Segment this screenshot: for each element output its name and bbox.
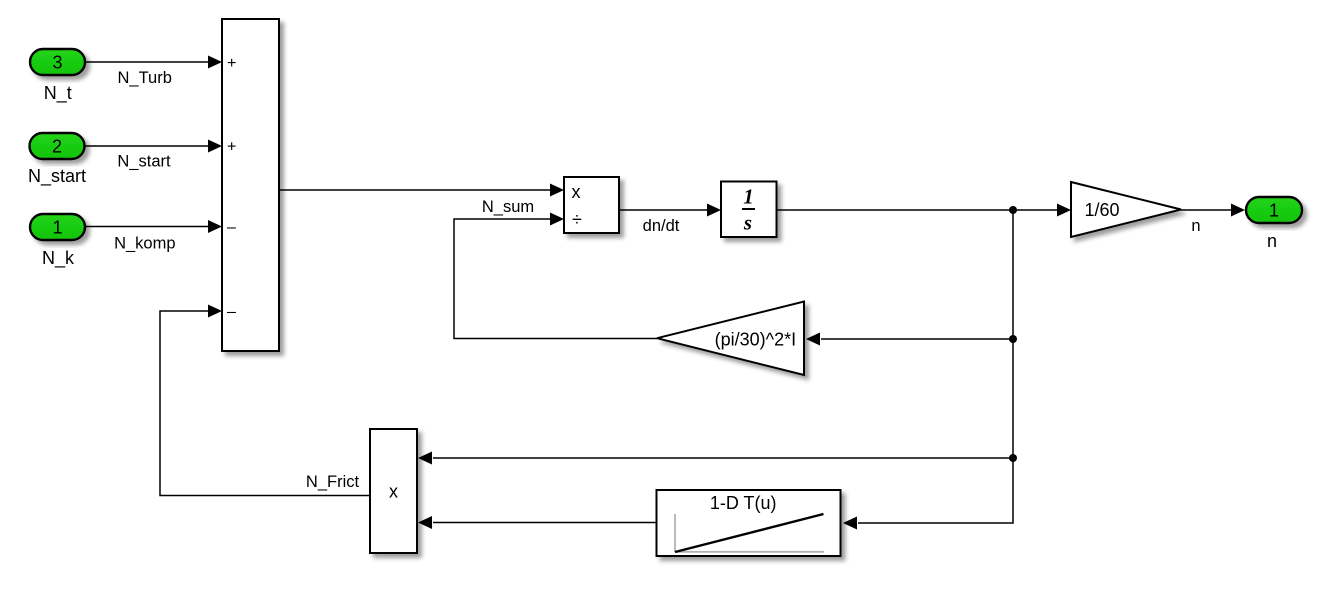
arrowhead into divide divisor input xyxy=(550,213,564,226)
svg-text:N_k: N_k xyxy=(42,248,75,269)
1-D lookup table block xyxy=(657,490,841,556)
svg-text:dn/dt: dn/dt xyxy=(643,217,680,235)
arrowhead into sum input 1 xyxy=(208,56,222,69)
inport 3 N_t xyxy=(30,49,85,75)
arrowhead into integrator xyxy=(707,204,721,217)
svg-text:÷: ÷ xyxy=(572,210,582,230)
svg-text:N_komp: N_komp xyxy=(114,235,175,253)
svg-text:s: s xyxy=(743,210,752,234)
arrowhead into sum input 4 xyxy=(208,305,222,318)
svg-text:N_start: N_start xyxy=(28,166,86,187)
wire: integrator output to gain 1/60 xyxy=(777,209,1059,211)
arrowhead into out port n xyxy=(1231,204,1245,217)
svg-text:1: 1 xyxy=(743,185,754,209)
arrowhead into divide x input xyxy=(550,184,564,197)
svg-text:2: 2 xyxy=(52,137,62,157)
svg-text:(pi/30)^2*I: (pi/30)^2*I xyxy=(715,329,796,349)
svg-text:–: – xyxy=(227,304,236,321)
arrowhead into pi-gain input xyxy=(806,333,820,346)
integrator block 1/s xyxy=(721,182,777,238)
wire: sum output to divide x input xyxy=(279,189,551,191)
arrowhead into gain 1/60 xyxy=(1057,204,1071,217)
junction dot at product branch xyxy=(1009,454,1017,462)
sum block xyxy=(222,19,279,351)
svg-text:N_Frict: N_Frict xyxy=(306,473,360,491)
svg-text:x: x xyxy=(572,182,581,202)
svg-text:–: – xyxy=(227,219,236,236)
wire: port N_k to sum input 3 xyxy=(85,226,209,228)
svg-text:1: 1 xyxy=(52,218,62,238)
wire: lookup output to product bottom input xyxy=(433,522,657,524)
product block N_Frict multiplier xyxy=(370,429,417,553)
lookup curve diagonal xyxy=(675,514,824,552)
wire: branch to product top input xyxy=(433,457,1013,459)
svg-text:1-D T(u): 1-D T(u) xyxy=(710,493,777,513)
svg-text:x: x xyxy=(389,482,398,502)
svg-text:N_start: N_start xyxy=(117,153,171,171)
svg-text:N_Turb: N_Turb xyxy=(117,69,171,87)
junction dot at integrator output line xyxy=(1009,206,1017,214)
wire: port N_start to sum input 2 xyxy=(85,145,210,147)
inport 2 N_start xyxy=(30,133,85,159)
wire: divide output to integrator xyxy=(619,209,708,211)
arrowhead into sum input 3 xyxy=(208,220,222,233)
svg-text:1/60: 1/60 xyxy=(1084,200,1119,220)
wire: product output feedback to sum input 4 xyxy=(160,311,370,496)
lookup axis horizontal xyxy=(675,551,824,553)
svg-text:n: n xyxy=(1191,217,1200,235)
svg-text:N_sum: N_sum xyxy=(482,198,534,216)
gain 1/60 xyxy=(1071,182,1181,237)
svg-text:+: + xyxy=(227,55,236,72)
divide block U=x/÷ xyxy=(564,177,619,233)
wire: vertical trunk from integrator line down to lookup input xyxy=(858,210,1013,523)
wire: port N_t to sum input 1 xyxy=(85,61,209,63)
svg-text:+: + xyxy=(227,139,236,156)
outport 1 n xyxy=(1246,197,1302,223)
arrowhead into sum input 2 xyxy=(208,140,222,153)
junction dot at pi-gain branch xyxy=(1009,335,1017,343)
arrowhead into product top input xyxy=(418,452,432,465)
wire: feedback from pi-gain tip to divide divisor input xyxy=(454,219,657,339)
lookup axis vertical xyxy=(674,514,676,552)
arrowhead into product bottom input xyxy=(418,516,432,529)
arrowhead into lookup table input xyxy=(843,517,857,530)
inport 1 N_k xyxy=(30,214,85,240)
gain (pi/30)^2*I flipped xyxy=(657,302,804,376)
wire: branch to pi-gain input xyxy=(821,338,1013,340)
wire: gain 1/60 output to out port xyxy=(1181,209,1232,211)
integrator fraction bar xyxy=(742,208,755,210)
svg-text:n: n xyxy=(1267,231,1277,251)
svg-text:N_t: N_t xyxy=(44,83,72,104)
svg-text:3: 3 xyxy=(52,53,62,73)
svg-text:1: 1 xyxy=(1269,201,1279,221)
